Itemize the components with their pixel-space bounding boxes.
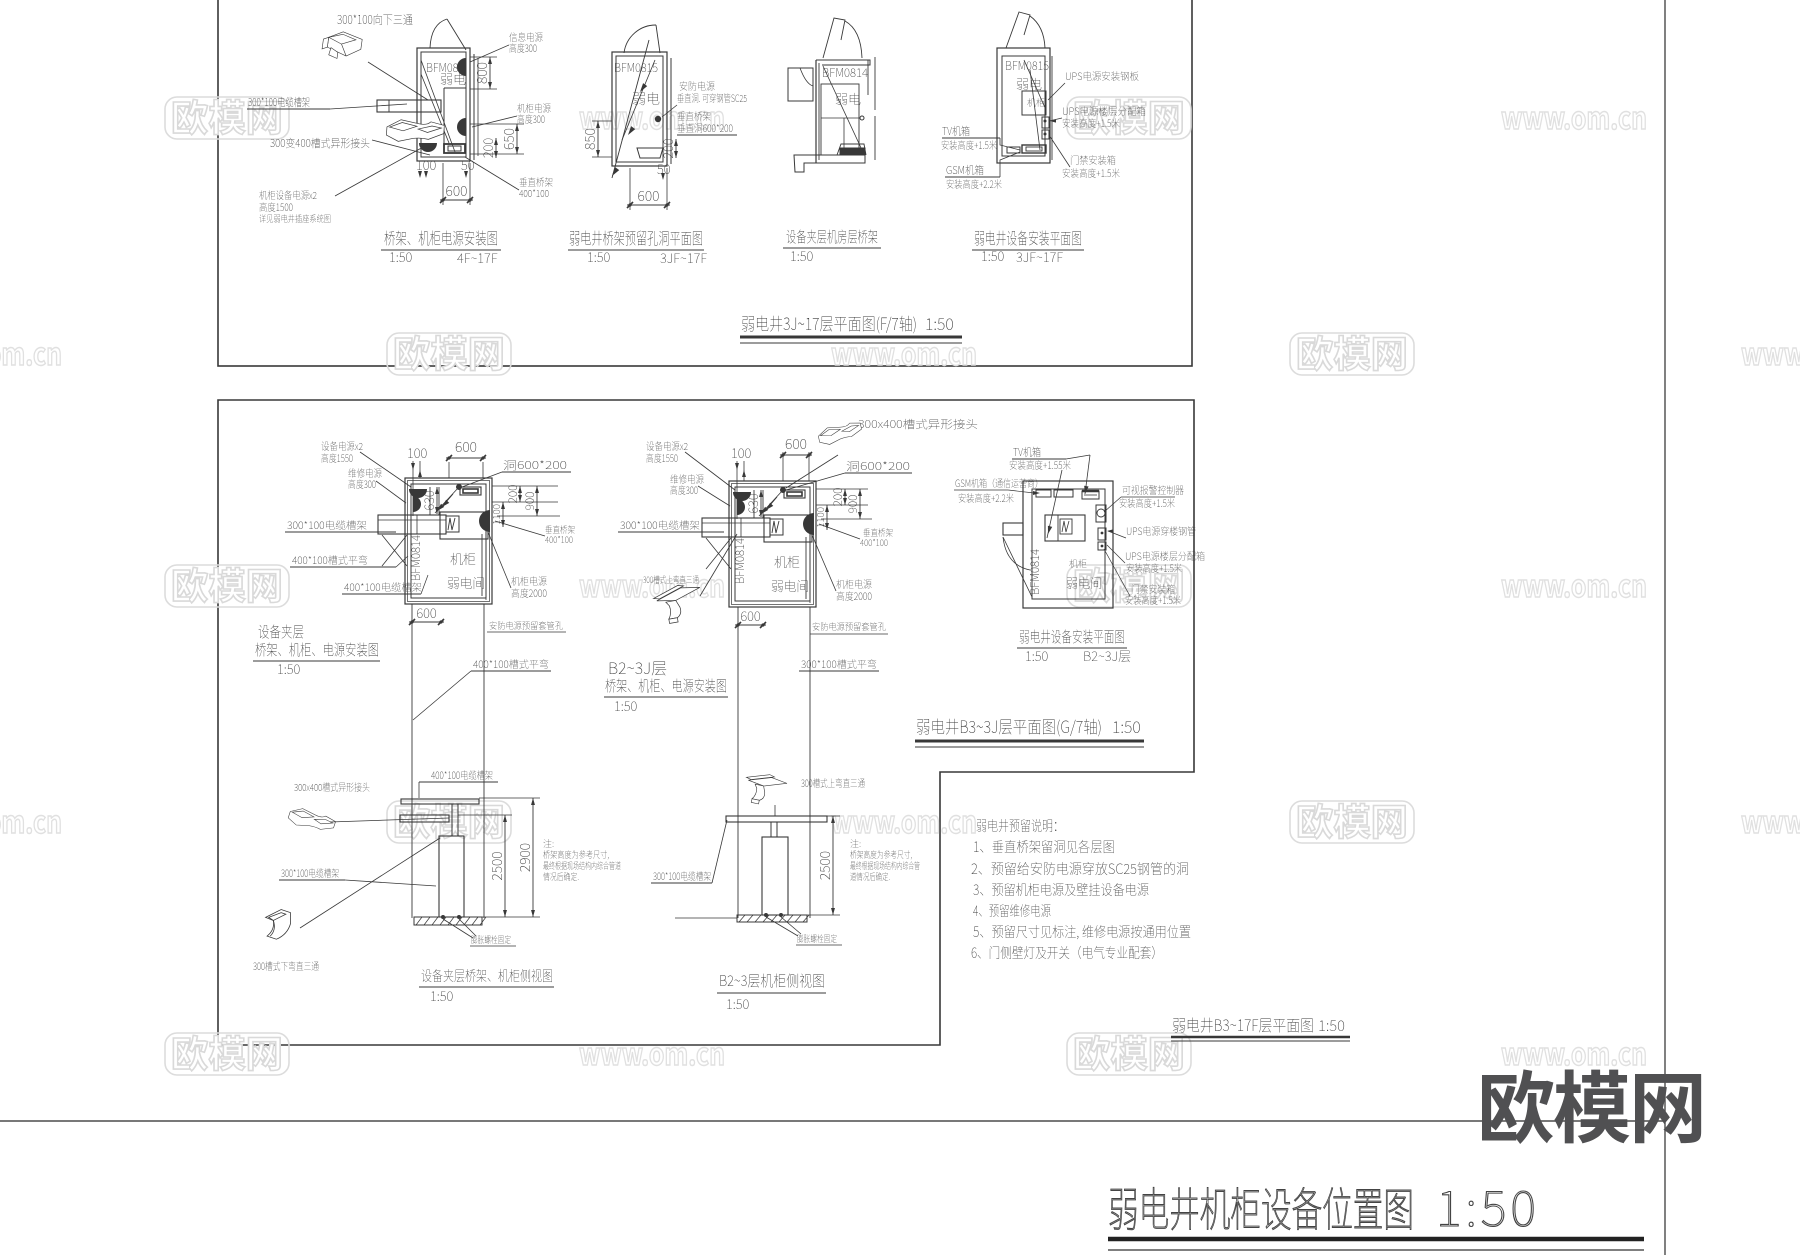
svg-text:800: 800 xyxy=(472,62,492,84)
svg-text:欧模网: 欧模网 xyxy=(1073,1024,1185,1078)
svg-text:高度1550: 高度1550 xyxy=(321,450,353,465)
svg-text:4F~17F: 4F~17F xyxy=(457,248,498,267)
D3 title xyxy=(783,226,881,265)
svg-text:欧模网: 欧模网 xyxy=(171,556,283,610)
svg-text:安装高度+1.5米: 安装高度+1.5米 xyxy=(1119,495,1175,510)
M3 title xyxy=(1017,626,1131,665)
svg-text:1:50: 1:50 xyxy=(587,247,611,266)
svg-text:安防电源预留套管孔: 安防电源预留套管孔 xyxy=(489,619,563,632)
D1 title xyxy=(381,225,501,267)
svg-text:情况后确定.: 情况后确定. xyxy=(543,870,579,883)
svg-text:1100: 1100 xyxy=(812,507,827,528)
svg-text:高度300: 高度300 xyxy=(670,482,698,497)
side view S2: B2~3 cabinet xyxy=(651,770,920,945)
svg-text:弱电: 弱电 xyxy=(835,89,861,108)
svg-text:BFM0814: BFM0814 xyxy=(731,538,748,584)
svg-text:300槽式上弯直三通: 300槽式上弯直三通 xyxy=(643,573,699,586)
svg-text:欧模网: 欧模网 xyxy=(393,324,505,378)
D2 title xyxy=(568,225,707,267)
svg-text:600: 600 xyxy=(416,603,437,622)
svg-text:200: 200 xyxy=(658,138,677,159)
watermarks grid xyxy=(0,88,1800,1078)
svg-text:1:50: 1:50 xyxy=(614,696,638,715)
svg-text:1、垂直桥架留洞见各层图: 1、垂直桥架留洞见各层图 xyxy=(973,837,1115,857)
svg-text:300槽式下弯直三通: 300槽式下弯直三通 xyxy=(253,958,319,973)
svg-text:400*100: 400*100 xyxy=(545,533,573,546)
svg-text:1:50: 1:50 xyxy=(790,246,814,265)
svg-text:1:50: 1:50 xyxy=(1112,714,1141,738)
svg-text:400*100电缆槽架: 400*100电缆槽架 xyxy=(344,579,422,594)
svg-text:机柜: 机柜 xyxy=(774,552,800,571)
S1 title xyxy=(419,966,554,1005)
svg-text:高度1550: 高度1550 xyxy=(646,450,678,465)
svg-text:安装高度+2.2米: 安装高度+2.2米 xyxy=(958,490,1014,505)
svg-text:1100: 1100 xyxy=(488,504,503,525)
svg-text:欧模网: 欧模网 xyxy=(171,1024,283,1078)
svg-text:安装高度+1.5米: 安装高度+1.5米 xyxy=(1125,592,1181,607)
diagram D3: equipment mezzanine room tray xyxy=(788,18,875,172)
top sheet title 3J~17F xyxy=(740,310,962,343)
svg-text:桥架、机柜、电源安装图: 桥架、机柜、电源安装图 xyxy=(605,675,727,696)
svg-text:300*100电缆槽架: 300*100电缆槽架 xyxy=(248,94,310,110)
sheet horizontal border line xyxy=(0,1120,1666,1122)
svg-text:2900: 2900 xyxy=(515,843,535,872)
svg-text:洞600*200: 洞600*200 xyxy=(503,457,567,473)
svg-text:300*100电缆槽架: 300*100电缆槽架 xyxy=(620,517,700,532)
svg-text:1:50: 1:50 xyxy=(1436,1170,1540,1241)
svg-text:安装高度+1.55米: 安装高度+1.55米 xyxy=(1009,457,1071,472)
diagram D2: shaft tray hole reservation plan xyxy=(580,25,747,210)
svg-text:200: 200 xyxy=(478,138,497,159)
svg-text:桥架、机柜、电源安装图: 桥架、机柜、电源安装图 xyxy=(255,639,379,660)
svg-text:650: 650 xyxy=(499,128,519,150)
svg-text:设备夹层桥架、机柜侧视图: 设备夹层桥架、机柜侧视图 xyxy=(421,966,553,986)
svg-text:100: 100 xyxy=(731,443,752,462)
svg-text:600: 600 xyxy=(638,186,660,206)
svg-text:欧模网: 欧模网 xyxy=(1296,792,1408,846)
svg-text:弱电间: 弱电间 xyxy=(1066,573,1102,592)
svg-text:弱电间: 弱电间 xyxy=(447,573,485,592)
svg-text:1:50: 1:50 xyxy=(1318,1015,1345,1036)
sheet title B3~17F xyxy=(1171,1012,1350,1041)
svg-text:900: 900 xyxy=(844,495,861,514)
svg-text:www.om.cn: www.om.cn xyxy=(579,1030,725,1074)
svg-text:高度300: 高度300 xyxy=(517,111,545,126)
svg-text:高度2000: 高度2000 xyxy=(511,585,547,600)
svg-text:设备夹层机房层桥架: 设备夹层机房层桥架 xyxy=(786,226,878,247)
svg-text:1:50: 1:50 xyxy=(430,986,454,1005)
S2 title xyxy=(717,970,826,1013)
svg-text:www.om.cn: www.om.cn xyxy=(1501,562,1647,606)
svg-text:弱电井B3~17F层平面图: 弱电井B3~17F层平面图 xyxy=(1172,1012,1314,1036)
svg-text:630: 630 xyxy=(419,490,438,511)
svg-text:弱电: 弱电 xyxy=(1016,74,1042,93)
svg-text:高度300: 高度300 xyxy=(509,40,537,55)
svg-text:弱电井预留说明：: 弱电井预留说明： xyxy=(976,816,1064,836)
svg-text:桥架、机柜电源安装图: 桥架、机柜电源安装图 xyxy=(384,225,498,249)
svg-text:B2~3层机柜侧视图: B2~3层机柜侧视图 xyxy=(719,970,825,991)
svg-text:膨胀螺栓固定: 膨胀螺栓固定 xyxy=(797,932,837,945)
svg-text:膨胀螺栓固定: 膨胀螺栓固定 xyxy=(471,933,511,946)
svg-text:弱电井3J~17层平面图(F/7轴): 弱电井3J~17层平面图(F/7轴) xyxy=(741,310,917,335)
svg-text:安装高度+1.5米: 安装高度+1.5米 xyxy=(941,137,997,152)
side view S1: mezzanine tray & cabinet xyxy=(253,767,621,973)
svg-text:安装高度+1.5米: 安装高度+1.5米 xyxy=(1126,560,1182,575)
svg-text:300槽式上弯直三通: 300槽式上弯直三通 xyxy=(801,775,865,790)
diagram D1: cabinet power install plan 4F-17F xyxy=(247,11,553,225)
svg-text:洞600*200: 洞600*200 xyxy=(846,458,910,474)
svg-text:850: 850 xyxy=(580,128,600,150)
site logo xyxy=(1477,1047,1705,1159)
svg-text:300*100电缆槽架: 300*100电缆槽架 xyxy=(287,517,367,532)
svg-text:GSM机箱（通信运营商）: GSM机箱（通信运营商） xyxy=(955,475,1043,490)
svg-text:300变400槽式异形接头: 300变400槽式异形接头 xyxy=(270,135,370,151)
svg-text:UPS电源安装钢板: UPS电源安装钢板 xyxy=(1065,68,1139,83)
svg-text:弱电井桥架预留孔洞平面图: 弱电井桥架预留孔洞平面图 xyxy=(569,225,703,249)
sheet vertical border line xyxy=(1664,0,1666,1255)
svg-text:400*100槽式平弯: 400*100槽式平弯 xyxy=(473,656,549,671)
svg-text:弱电间: 弱电间 xyxy=(771,576,809,595)
svg-text:1:50: 1:50 xyxy=(925,311,954,335)
svg-text:机柜: 机柜 xyxy=(450,549,476,568)
svg-text:300*100槽式平弯: 300*100槽式平弯 xyxy=(801,656,877,671)
svg-text:1:50: 1:50 xyxy=(389,247,413,266)
main drawing title xyxy=(1108,1170,1644,1250)
svg-text:www.om.cn: www.om.cn xyxy=(0,798,62,842)
svg-text:详见弱电井插座系统图: 详见弱电井插座系统图 xyxy=(259,212,331,225)
svg-text:900: 900 xyxy=(521,492,538,511)
svg-text:www.om.cn: www.om.cn xyxy=(1741,798,1800,842)
svg-text:1:50: 1:50 xyxy=(726,994,750,1013)
svg-text:100: 100 xyxy=(407,443,428,462)
svg-text:道情况后确定.: 道情况后确定. xyxy=(850,870,890,883)
svg-text:垂直洞. 可穿钢管SC25: 垂直洞. 可穿钢管SC25 xyxy=(677,90,747,105)
diagram M3: shaft equipment install plan B2~3J xyxy=(954,444,1205,608)
svg-text:弱电井机柜设备位置图: 弱电井机柜设备位置图 xyxy=(1108,1174,1414,1240)
svg-text:www.om.cn: www.om.cn xyxy=(831,798,977,842)
notes text block xyxy=(971,816,1191,963)
svg-text:300*100电缆槽架: 300*100电缆槽架 xyxy=(281,865,339,880)
svg-text:高度2000: 高度2000 xyxy=(836,588,872,603)
svg-text:2500: 2500 xyxy=(487,851,507,880)
svg-text:300x400槽式异形接头: 300x400槽式异形接头 xyxy=(294,779,370,794)
svg-text:1:50: 1:50 xyxy=(1025,646,1049,665)
svg-text:www.om.cn: www.om.cn xyxy=(1501,94,1647,138)
svg-text:1:50: 1:50 xyxy=(981,246,1005,265)
svg-text:3、预留机柜电源及壁挂设备电源: 3、预留机柜电源及壁挂设备电源 xyxy=(973,880,1149,900)
svg-text:BFM0814: BFM0814 xyxy=(1026,549,1043,595)
svg-text:B2~3J层: B2~3J层 xyxy=(1083,646,1131,665)
svg-text:安防电源预留套管孔: 安防电源预留套管孔 xyxy=(812,620,886,633)
svg-text:400*100: 400*100 xyxy=(519,185,549,200)
svg-text:高度300: 高度300 xyxy=(348,476,376,491)
svg-text:2、预留给安防电源穿放SC25钢管的洞: 2、预留给安防电源穿放SC25钢管的洞 xyxy=(971,859,1189,879)
svg-text:6、门侧壁灯及开关（电气专业配套）: 6、门侧壁灯及开关（电气专业配套） xyxy=(971,943,1163,963)
M2 title xyxy=(604,655,728,715)
svg-text:600: 600 xyxy=(455,437,477,457)
svg-text:3JF~17F: 3JF~17F xyxy=(1016,247,1063,266)
svg-text:BFM0815: BFM0815 xyxy=(1005,57,1049,74)
svg-text:2500: 2500 xyxy=(815,851,835,880)
diagram M1: mezzanine tray/cabinet/power plan xyxy=(285,437,575,918)
svg-text:弱电井设备安装平面图: 弱电井设备安装平面图 xyxy=(1019,626,1125,647)
diagram M2: B2~3J tray/cabinet/power plan xyxy=(618,416,978,918)
D4 title xyxy=(972,225,1084,266)
svg-text:欧模网: 欧模网 xyxy=(1477,1047,1705,1159)
svg-text:机柜: 机柜 xyxy=(1069,557,1087,570)
svg-text:欧模网: 欧模网 xyxy=(1296,324,1408,378)
svg-text:弱电井B3~3J层平面图(G/7轴): 弱电井B3~3J层平面图(G/7轴) xyxy=(916,713,1102,738)
svg-text:5、预留尺寸见标注, 维修电源按通用位置: 5、预留尺寸见标注, 维修电源按通用位置 xyxy=(973,922,1191,942)
svg-text:垂直洞600*200: 垂直洞600*200 xyxy=(677,120,733,135)
diagram D4: shaft equipment install plan xyxy=(941,12,1146,191)
svg-text:300x400槽式异形接头: 300x400槽式异形接头 xyxy=(858,416,978,432)
svg-text:400*100槽式平弯: 400*100槽式平弯 xyxy=(292,552,368,567)
svg-text:www.om.cn: www.om.cn xyxy=(1741,330,1800,374)
svg-text:4、预留维修电源: 4、预留维修电源 xyxy=(973,901,1051,921)
svg-text:安装高度+1.5米: 安装高度+1.5米 xyxy=(1062,115,1120,130)
svg-text:600: 600 xyxy=(785,434,807,454)
svg-text:630: 630 xyxy=(743,493,762,514)
svg-text:400*100电缆槽架: 400*100电缆槽架 xyxy=(431,767,493,782)
outer top drawing frame box xyxy=(218,0,1192,366)
middle sheet title B3~3J xyxy=(915,713,1144,747)
svg-text:安装高度+2.2米: 安装高度+2.2米 xyxy=(946,176,1002,191)
svg-text:200: 200 xyxy=(504,485,521,504)
svg-text:安装高度+1.5米: 安装高度+1.5米 xyxy=(1062,165,1120,180)
svg-text:400*100: 400*100 xyxy=(860,536,888,549)
svg-text:600: 600 xyxy=(740,606,761,625)
svg-text:BFM0814: BFM0814 xyxy=(407,535,424,581)
svg-text:BFM0815: BFM0815 xyxy=(614,59,658,76)
middle drawing frame stepped box xyxy=(218,400,1194,1045)
svg-text:1:50: 1:50 xyxy=(277,659,301,678)
svg-text:www.om.cn: www.om.cn xyxy=(0,330,62,374)
M1 title xyxy=(253,621,380,678)
svg-text:600: 600 xyxy=(446,181,468,201)
svg-text:UPS电源穿楼钢管: UPS电源穿楼钢管 xyxy=(1126,523,1196,538)
svg-text:300*100电缆槽架: 300*100电缆槽架 xyxy=(653,868,711,883)
svg-text:3JF~17F: 3JF~17F xyxy=(660,248,707,267)
svg-text:300*100向下三通: 300*100向下三通 xyxy=(337,11,413,28)
